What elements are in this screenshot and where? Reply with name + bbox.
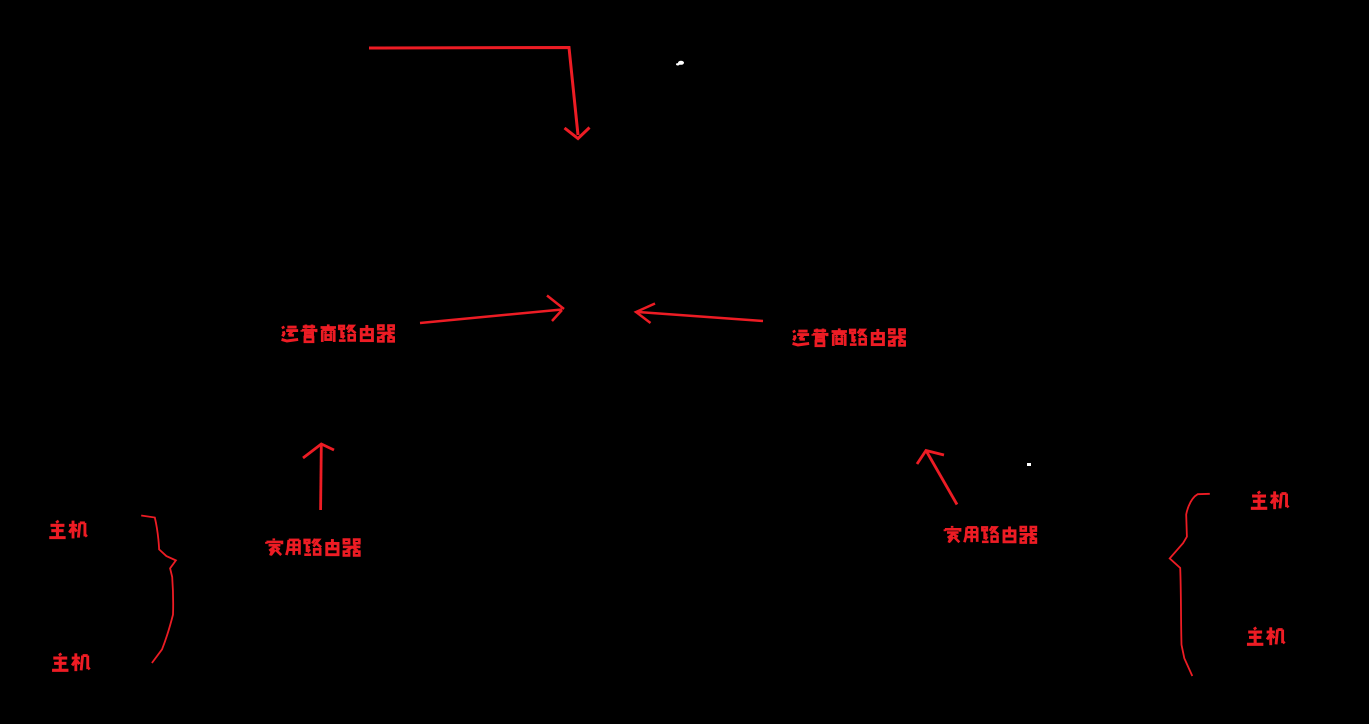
white speck 2 xyxy=(1027,463,1031,466)
white speck 1 xyxy=(676,61,684,66)
left home-router arrow head xyxy=(303,444,334,458)
left ISP arrow head xyxy=(547,296,564,310)
node label: 家用路由器 (right) xyxy=(945,526,1037,543)
node label: 运营商路由器 (right) xyxy=(793,328,906,346)
top elbow arrow head xyxy=(565,128,590,139)
node label: 主机 (right top) xyxy=(1251,491,1289,509)
node label: 家用路由器 (left) xyxy=(266,538,360,555)
node label: 主机 (left bottom) xyxy=(52,653,90,671)
wire: right home-router diagonal arrow shaft xyxy=(926,451,957,505)
brace: left host group xyxy=(141,516,176,664)
node label: 运营商路由器 (left) xyxy=(282,324,395,342)
wire: left home-router up arrow shaft xyxy=(319,444,322,510)
node label: 主机 (left top) xyxy=(49,521,87,539)
node label: 主机 (right bottom) xyxy=(1247,627,1285,645)
wire: top elbow arrow shaft xyxy=(369,48,578,136)
wire: left ISP arrow shaft xyxy=(420,310,562,324)
brace: right host group xyxy=(1170,494,1210,676)
wire: right ISP arrow shaft xyxy=(638,312,763,321)
right ISP arrow head xyxy=(636,304,655,324)
right home-router arrow head xyxy=(917,451,944,465)
